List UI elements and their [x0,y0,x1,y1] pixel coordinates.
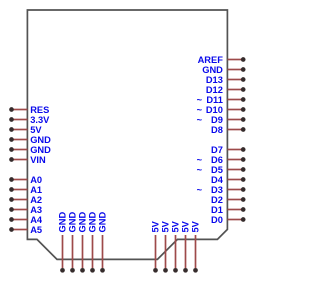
pin GND bottom 5 [98,212,108,273]
svg-text:5V: 5V [151,220,161,232]
svg-text:GND: GND [98,212,108,233]
svg-text:~: ~ [197,165,203,175]
svg-text:D0: D0 [211,215,223,225]
pin D0 [211,215,246,225]
pin D7 [211,145,246,155]
svg-text:D1: D1 [211,205,223,215]
svg-text:5V: 5V [171,220,181,232]
svg-text:A4: A4 [30,215,43,225]
pin D10 pwm [197,105,246,115]
svg-text:GND: GND [68,212,78,233]
pin GND left2 [9,145,51,155]
pin A5 [9,225,42,235]
svg-text:5V: 5V [161,220,171,232]
pin RES [9,105,49,115]
pin GND bottom 1 [58,212,68,273]
body outline U1 Arduino Uno shield [27,10,227,259]
pin A4 [9,215,43,225]
pin A2 [9,195,42,205]
pin D9 pwm [197,115,246,125]
svg-text:D6: D6 [211,155,223,165]
pin GND bottom 4 [88,212,98,273]
svg-text:D9: D9 [211,115,223,125]
svg-text:GND: GND [30,135,51,145]
pin 5V left [9,125,42,135]
svg-text:GND: GND [78,212,88,233]
svg-text:A1: A1 [30,185,42,195]
svg-text:D11: D11 [206,95,223,105]
svg-text:D7: D7 [211,145,223,155]
pin D3 pwm [197,185,246,195]
pin GND bottom 3 [78,212,88,273]
svg-text:AREF: AREF [198,55,224,65]
svg-text:5V: 5V [191,220,201,232]
svg-text:GND: GND [58,212,68,233]
svg-text:D12: D12 [206,85,223,95]
svg-text:~: ~ [197,105,203,115]
pin AREF [198,55,246,65]
pin 3.3V [9,115,50,125]
pin D5 pwm [197,165,246,175]
pin D1 [211,205,246,215]
pin D4 [211,175,246,185]
svg-text:D2: D2 [211,195,223,205]
pin A3 [9,205,42,215]
svg-text:D13: D13 [206,75,223,85]
svg-text:GND: GND [30,145,51,155]
pin GND left1 [9,135,51,145]
svg-text:VIN: VIN [30,155,46,165]
pin 5V bottom 5 [191,220,201,272]
pin D13 [206,75,246,85]
pin VIN [9,155,46,165]
pin A1 [9,185,42,195]
svg-text:5V: 5V [181,220,191,232]
pin D8 [211,125,246,135]
pin GND right [202,65,245,75]
pin D2 [211,195,246,205]
svg-text:A3: A3 [30,205,42,215]
pin GND bottom 2 [68,212,78,273]
svg-text:~: ~ [197,95,203,105]
svg-text:D3: D3 [211,185,223,195]
pin 5V bottom 1 [151,220,161,272]
pin 5V bottom 2 [161,220,171,272]
svg-text:D10: D10 [206,105,223,115]
svg-text:A0: A0 [30,175,42,185]
pin A0 [9,175,42,185]
svg-text:A2: A2 [30,195,42,205]
svg-text:A5: A5 [30,225,42,235]
svg-text:~: ~ [197,155,203,165]
pin 5V bottom 3 [171,220,181,272]
svg-text:D5: D5 [211,165,223,175]
svg-text:RES: RES [30,105,49,115]
pin 5V bottom 4 [181,220,191,272]
svg-text:~: ~ [197,115,203,125]
svg-text:GND: GND [202,65,223,75]
svg-text:GND: GND [88,212,98,233]
svg-text:~: ~ [197,185,203,195]
pin D6 pwm [197,155,246,165]
svg-text:D4: D4 [211,175,224,185]
svg-text:D8: D8 [211,125,223,135]
svg-text:3.3V: 3.3V [30,115,50,125]
svg-text:5V: 5V [30,125,42,135]
pin D11 pwm [197,95,246,105]
pin D12 [206,85,246,95]
